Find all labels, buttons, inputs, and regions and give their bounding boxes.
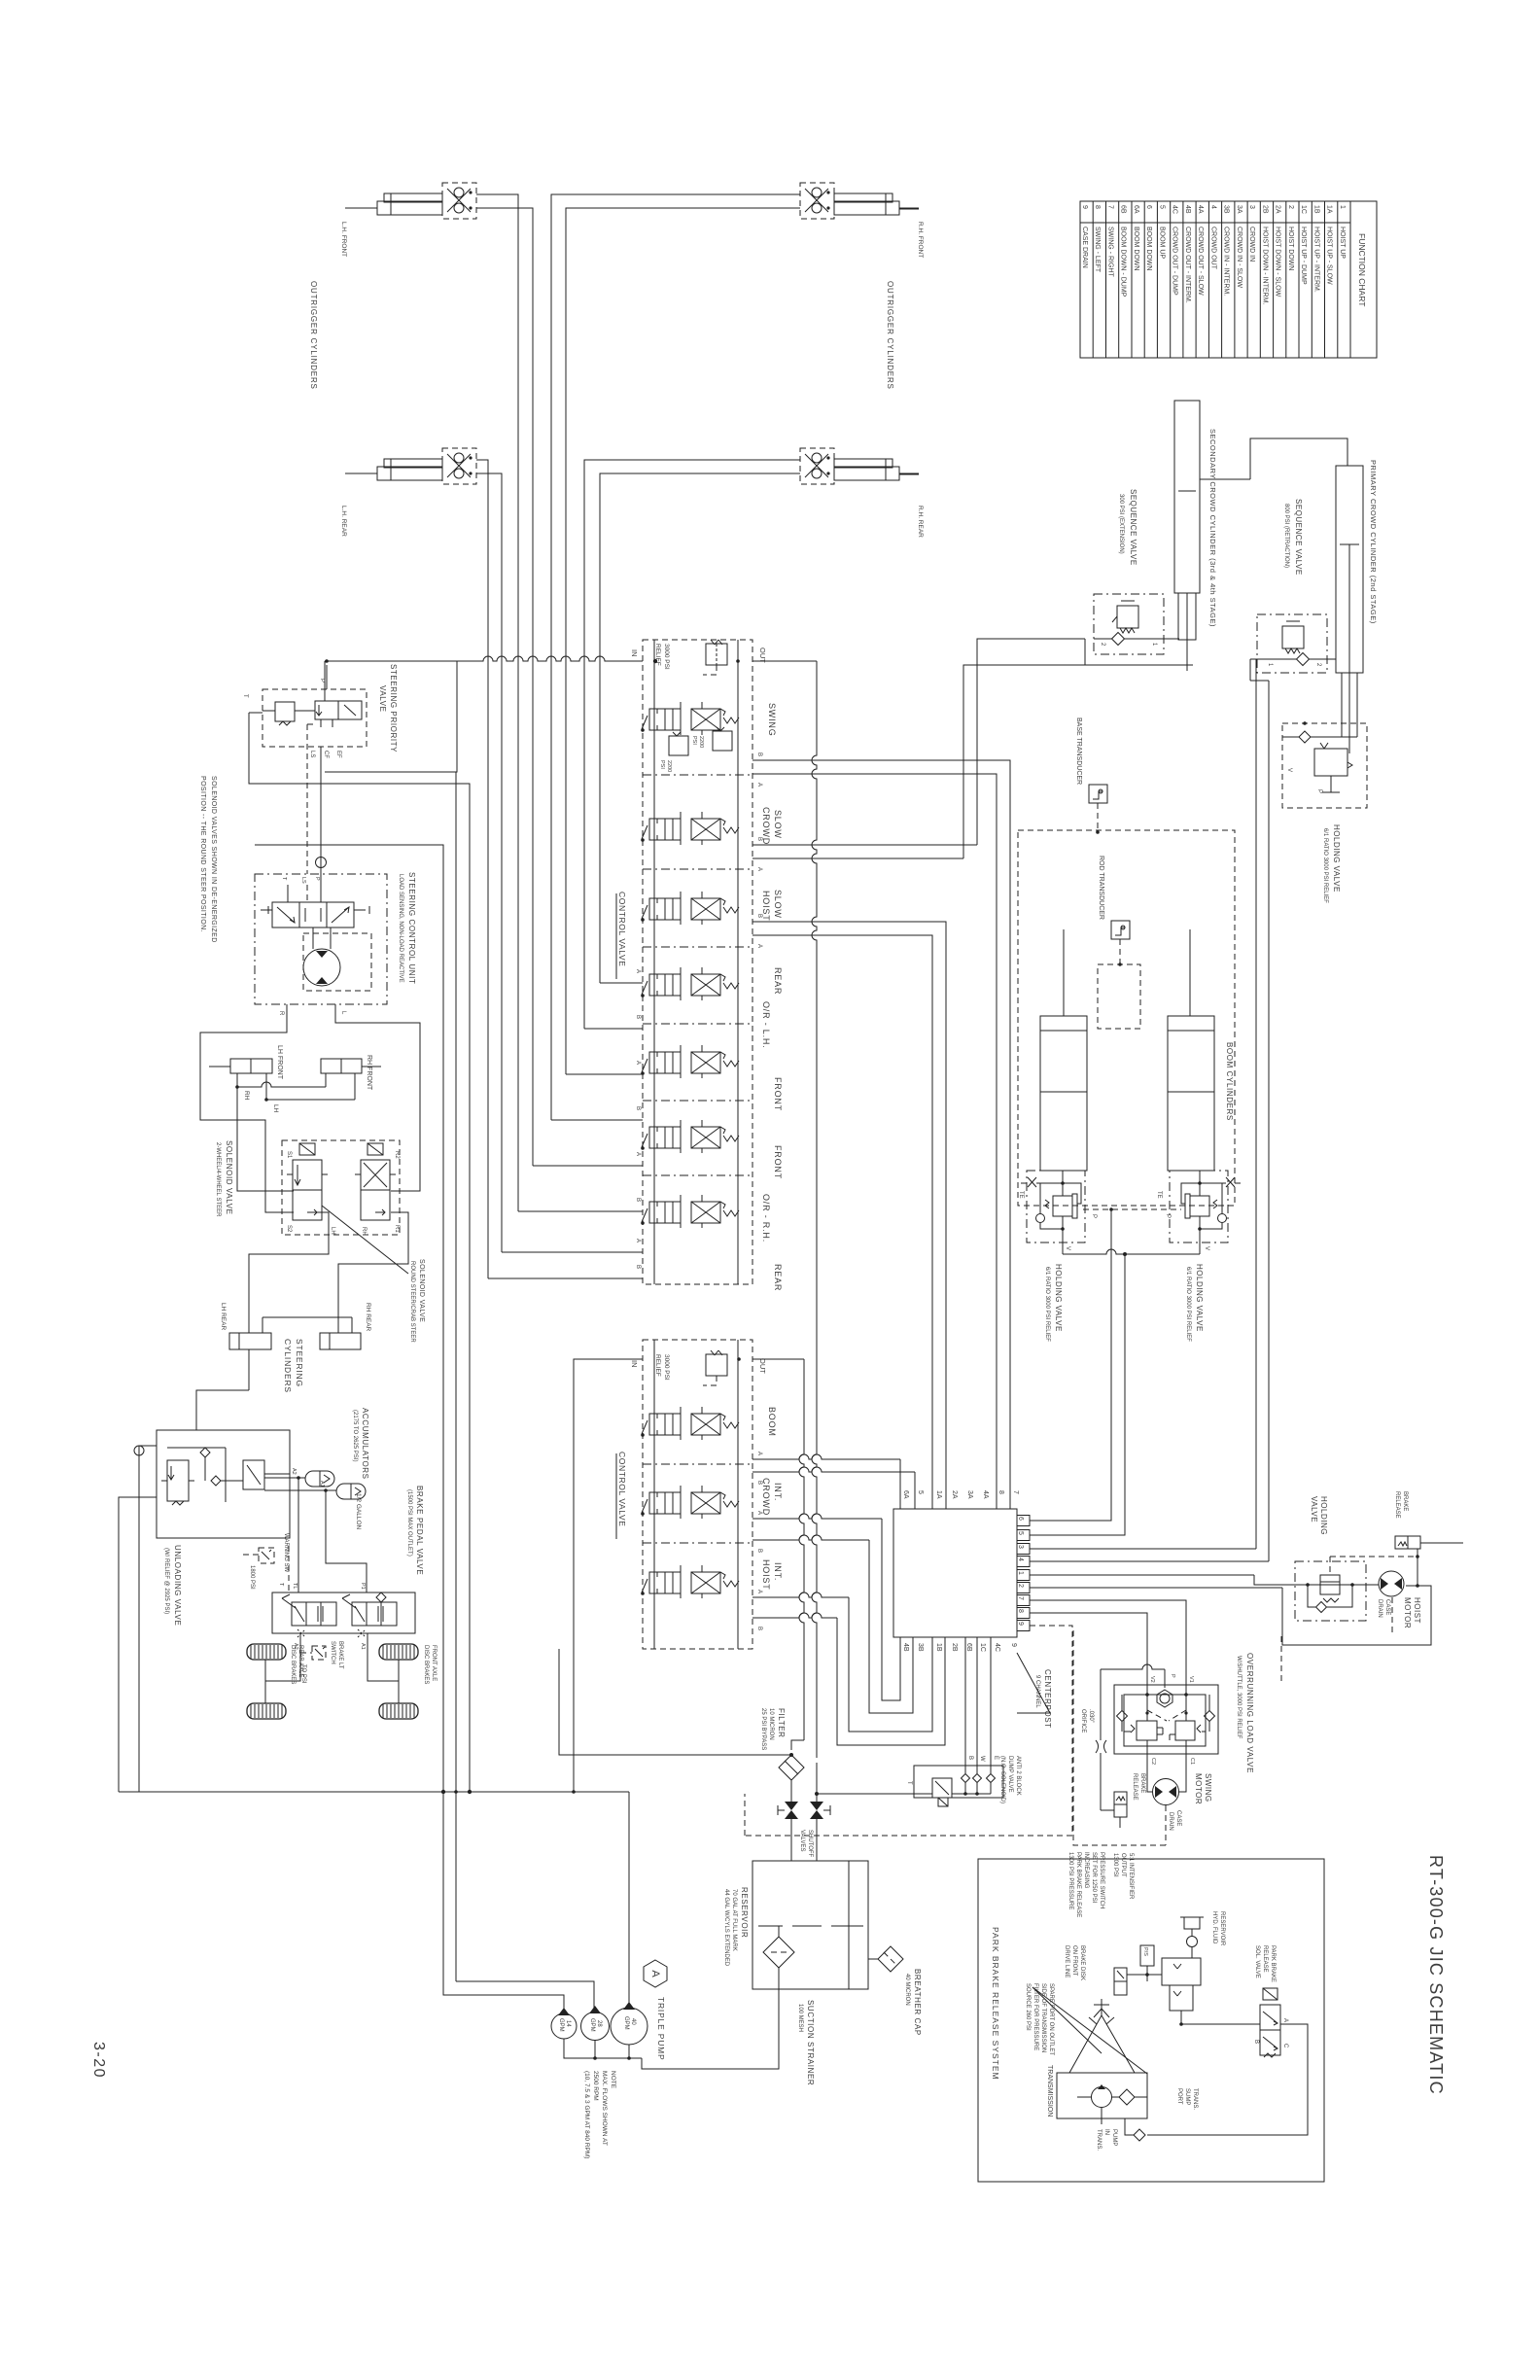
svg-text:MOTOR: MOTOR xyxy=(1194,1773,1203,1804)
svg-text:3-20: 3-20 xyxy=(90,2042,107,2079)
svg-text:B: B xyxy=(1253,2040,1259,2044)
svg-text:28: 28 xyxy=(596,2020,602,2027)
svg-text:ORIFICE: ORIFICE xyxy=(1080,1709,1086,1732)
svg-text:W: W xyxy=(979,1756,985,1762)
svg-text:1C: 1C xyxy=(979,1643,986,1652)
base transducer xyxy=(1089,785,1107,803)
svg-text:A: A xyxy=(756,944,762,948)
svg-text:R1: R1 xyxy=(394,1225,400,1233)
svg-text:SOLENOID VALVE: SOLENOID VALVE xyxy=(225,1140,233,1215)
svg-text:CF: CF xyxy=(323,751,329,758)
svg-text:SOLENOID VALVES SHOWN IN D: SOLENOID VALVES SHOWN IN DE-ENERGIZED xyxy=(210,776,217,943)
svg-text:2B: 2B xyxy=(951,1643,958,1652)
lower control valve box xyxy=(643,1340,752,1649)
wire staircase hoist A xyxy=(752,1592,849,1597)
svg-text:BRAKE: BRAKE xyxy=(1402,1491,1408,1511)
svg-text:A: A xyxy=(756,867,762,871)
wire centerpost 1 to hoist main line xyxy=(1254,1575,1379,1585)
svg-text:1: 1 xyxy=(1339,205,1346,209)
svg-text:DRAIN: DRAIN xyxy=(1377,1599,1382,1618)
SCU gerotor motor xyxy=(303,949,340,986)
svg-text:A: A xyxy=(635,1239,641,1242)
svg-text:FILTER FOR PRESSURE: FILTER FOR PRESSURE xyxy=(1032,1983,1038,2050)
swing assembly dashed enclosure xyxy=(1073,1630,1166,1845)
svg-text:A1: A1 xyxy=(360,1643,366,1650)
svg-text:4A: 4A xyxy=(982,1490,989,1499)
svg-text:HOLDING VALVE: HOLDING VALVE xyxy=(1054,1264,1063,1332)
swing port reliefs 2200 psi xyxy=(669,736,688,755)
svg-text:4C: 4C xyxy=(1172,205,1178,214)
svg-text:ANTI 2 BLOCK: ANTI 2 BLOCK xyxy=(1015,1756,1021,1796)
svg-text:P: P xyxy=(314,877,320,881)
tank return line xyxy=(559,1649,791,1755)
wire staircase hoist B xyxy=(752,1613,837,1618)
wire suction line xyxy=(642,1968,779,2069)
svg-text:HOIST UP: HOIST UP xyxy=(1339,227,1346,259)
pilot check valves L.H. REAR xyxy=(442,448,476,484)
svg-text:2A: 2A xyxy=(1275,205,1281,214)
svg-text:IN: IN xyxy=(630,1360,639,1368)
anti two block dump valve box xyxy=(914,1766,1003,1798)
svg-text:2-WHEEL/4-WHEEL STEER: 2-WHEEL/4-WHEEL STEER xyxy=(215,1142,221,1217)
brake pedal valve box xyxy=(272,1592,415,1633)
svg-text:GPM: GPM xyxy=(558,2018,564,2032)
svg-text:4A: 4A xyxy=(1197,205,1204,214)
lower control valve sections xyxy=(642,1420,647,1434)
svg-text:100 MESH: 100 MESH xyxy=(797,2004,803,2032)
svg-text:SOLENOID VALVE: SOLENOID VALVE xyxy=(418,1259,425,1322)
svg-text:SUMP: SUMP xyxy=(1184,2088,1190,2105)
svg-text:HOIST UP - DUMP: HOIST UP - DUMP xyxy=(1300,227,1307,285)
svg-text:RELEASE: RELEASE xyxy=(1262,1945,1268,1973)
svg-text:9: 9 xyxy=(1017,1622,1024,1626)
wire unloading A2 to accumulator and brake valve xyxy=(264,1477,305,1479)
svg-text:5: 5 xyxy=(1017,1531,1024,1535)
OLV spool right xyxy=(1175,1721,1195,1740)
centerpost right port stubs xyxy=(1017,1516,1030,1526)
svg-text:BOOM DOWN: BOOM DOWN xyxy=(1145,227,1152,271)
svg-text:E: E xyxy=(993,1756,998,1760)
transmission xyxy=(1057,2073,1147,2118)
svg-text:B: B xyxy=(756,1549,762,1553)
wire sol valve to sump xyxy=(1147,2024,1308,2135)
svg-text:10 MICRON: 10 MICRON xyxy=(768,1708,774,1740)
svg-text:6B: 6B xyxy=(1120,205,1127,214)
svg-text:(N.O. SOLENOID): (N.O. SOLENOID) xyxy=(999,1756,1005,1803)
brake pedal valve spools xyxy=(292,1602,336,1626)
svg-text:1A: 1A xyxy=(1326,205,1333,214)
steering control unit box xyxy=(255,874,387,1004)
svg-text:6A: 6A xyxy=(1133,205,1139,214)
svg-text:BRAKE LT: BRAKE LT xyxy=(337,1641,343,1669)
svg-text:A: A xyxy=(649,1970,661,1977)
wire centerpost 8 to OLV V2 xyxy=(1030,1613,1147,1721)
svg-text:PORT: PORT xyxy=(1176,2088,1182,2105)
svg-text:(1500 PSI MAX OUTLET): (1500 PSI MAX OUTLET) xyxy=(406,1489,412,1557)
tire rear axle bottom xyxy=(247,1703,286,1719)
boom holding valve right top loop xyxy=(1181,1183,1200,1204)
svg-text:A: A xyxy=(756,1511,762,1515)
SCU outer routing box xyxy=(255,845,443,1792)
svg-text:4B: 4B xyxy=(902,1643,909,1652)
wire P riser to centerpost 6 xyxy=(1030,1209,1111,1521)
svg-text:LS: LS xyxy=(309,751,315,757)
svg-text:LH: LH xyxy=(330,1227,335,1235)
svg-text:DRIVE LINE: DRIVE LINE xyxy=(1064,1945,1069,1977)
svg-text:OUTRIGGER CYLINDERS: OUTRIGGER CYLINDERS xyxy=(309,281,318,390)
triple pump 40 gpm xyxy=(611,2008,647,2045)
svg-text:UNLOADING VALVE: UNLOADING VALVE xyxy=(173,1545,182,1626)
lower CV section separators xyxy=(643,1463,752,1465)
svg-text:FRONT AXLE: FRONT AXLE xyxy=(431,1645,437,1681)
holding valve crowd xyxy=(1282,723,1367,808)
boom cylinder right xyxy=(1168,1016,1214,1171)
svg-text:L.H. FRONT: L.H. FRONT xyxy=(340,222,347,257)
svg-text:RT-300-G JIC SCHEMATIC: RT-300-G JIC SCHEMATIC xyxy=(1426,1855,1446,2095)
svg-text:O/R - L.H.: O/R - L.H. xyxy=(761,1001,771,1049)
svg-text:A: A xyxy=(756,1452,762,1455)
svg-text:FRONT: FRONT xyxy=(773,1145,783,1179)
hoist holding valve bypass check xyxy=(1308,1585,1315,1607)
svg-text:A: A xyxy=(635,1061,641,1065)
svg-text:S1: S1 xyxy=(286,1151,292,1159)
svg-text:1A: 1A xyxy=(935,1490,942,1499)
svg-text:RELEASE: RELEASE xyxy=(1394,1491,1400,1519)
wire staircase crowd B xyxy=(752,1535,869,1540)
svg-text:V2: V2 xyxy=(1149,1676,1155,1683)
svg-text:RH REAR: RH REAR xyxy=(365,1303,371,1332)
svg-text:CROWD OUT - SLOW: CROWD OUT - SLOW xyxy=(1197,227,1204,296)
svg-text:R: R xyxy=(278,1011,284,1016)
tire front axle top xyxy=(379,1644,418,1660)
wire L.H. REAR to bus xyxy=(476,460,488,1278)
svg-text:6/1 RATIO 3000 PSI RELIEF: 6/1 RATIO 3000 PSI RELIEF xyxy=(1044,1267,1050,1342)
svg-text:1B: 1B xyxy=(935,1643,942,1652)
check circle on line xyxy=(134,1446,144,1455)
svg-text:3A: 3A xyxy=(966,1490,973,1499)
svg-text:CASE: CASE xyxy=(1384,1599,1390,1615)
callout spare port xyxy=(1032,1987,1147,2074)
svg-text:BRAKE DISK: BRAKE DISK xyxy=(1079,1945,1085,1980)
svg-text:A2: A2 xyxy=(291,1468,297,1475)
svg-text:3: 3 xyxy=(1248,205,1255,209)
wire lower CV boom outputs to centerpost top xyxy=(752,1454,900,1459)
svg-text:B: B xyxy=(635,1106,641,1110)
reservoir hyd fluid symbol xyxy=(1184,1917,1200,1929)
outrigger cylinder R.H. FRONT xyxy=(834,201,899,215)
boom cylinders dashed enclosure xyxy=(1018,830,1235,1206)
svg-text:B: B xyxy=(635,1265,641,1269)
svg-text:P: P xyxy=(1091,1214,1097,1218)
svg-text:DISC BRAKES: DISC BRAKES xyxy=(290,1645,296,1684)
pressure intensifier xyxy=(1162,1958,1201,1985)
svg-text:9: 9 xyxy=(1081,205,1088,209)
svg-text:HOIST UP - INTERM.: HOIST UP - INTERM. xyxy=(1312,227,1319,293)
overrunning load valve box xyxy=(1114,1685,1218,1754)
svg-text:OUTPUT: OUTPUT xyxy=(1120,1853,1126,1877)
svg-text:800 PSI (RETRACTION): 800 PSI (RETRACTION) xyxy=(1283,504,1289,568)
svg-text:CONTROL VALVE: CONTROL VALVE xyxy=(617,892,627,967)
svg-text:ROD TRANSDUCER: ROD TRANSDUCER xyxy=(1098,856,1104,920)
svg-text:DRAIN: DRAIN xyxy=(1168,1812,1173,1831)
svg-text:P: P xyxy=(1316,789,1322,793)
accumulator 2 xyxy=(336,1484,366,1499)
svg-text:.030”: .030” xyxy=(1088,1709,1094,1723)
wire unloading valve to steering xyxy=(196,1390,249,1430)
svg-text:V: V xyxy=(1286,768,1292,772)
svg-text:R.H. FRONT: R.H. FRONT xyxy=(917,222,924,258)
boom holding valve right check xyxy=(1218,1214,1227,1223)
svg-text:2: 2 xyxy=(1017,1584,1024,1588)
svg-text:8: 8 xyxy=(1017,1609,1024,1613)
svg-text:P: P xyxy=(1165,1214,1171,1218)
svg-text:WARNING SW: WARNING SW xyxy=(283,1533,289,1572)
accumulator 1 xyxy=(305,1471,334,1487)
rear axle xyxy=(264,1660,266,1703)
svg-text:1800 PSI: 1800 PSI xyxy=(249,1565,255,1590)
triple pump 14 gpm xyxy=(551,2013,577,2039)
brake disk fork xyxy=(1101,1999,1102,2009)
svg-text:HOIST: HOIST xyxy=(761,1559,771,1591)
upper control valve box xyxy=(643,640,752,1284)
filter xyxy=(779,1755,804,1780)
svg-text:300 PSI (EXTENSION): 300 PSI (EXTENSION) xyxy=(1118,494,1124,554)
wire crowd feed lines xyxy=(977,639,1085,845)
wire staircase crowd A xyxy=(752,1514,882,1519)
svg-text:BOOM DOWN - DUMP: BOOM DOWN - DUMP xyxy=(1120,227,1127,297)
svg-text:4: 4 xyxy=(1017,1557,1024,1561)
svg-text:BASE TRANSDUCER: BASE TRANSDUCER xyxy=(1075,717,1082,785)
steering cylinder crossover A xyxy=(236,1073,238,1087)
OLV check left xyxy=(1117,1711,1128,1722)
anti two block T line xyxy=(817,1793,932,1795)
brake light switch xyxy=(312,1646,326,1660)
svg-text:PARK BRAKE: PARK BRAKE xyxy=(1270,1945,1276,1982)
svg-text:CROWD OUT - DUMP: CROWD OUT - DUMP xyxy=(1172,227,1178,296)
svg-text:B: B xyxy=(756,752,762,756)
wire port9 dashed network xyxy=(745,1626,1072,1836)
svg-text:A: A xyxy=(756,783,762,787)
svg-text:PSI: PSI xyxy=(659,760,665,769)
anti two block solenoid valve xyxy=(932,1778,952,1798)
wire unloading A1 to accumulator 2 and brake valve xyxy=(264,1489,336,1491)
svg-text:B: B xyxy=(756,1481,762,1485)
rod transducer dashed box xyxy=(1119,939,1121,964)
svg-text:TE: TE xyxy=(1018,1191,1024,1199)
svg-text:IN: IN xyxy=(1103,2129,1109,2135)
shutoff valve left xyxy=(785,1802,798,1810)
svg-text:TRANSMISSION: TRANSMISSION xyxy=(1046,2065,1053,2117)
svg-text:SEQUENCE VALVE: SEQUENCE VALVE xyxy=(1294,499,1303,576)
svg-text:A: A xyxy=(635,1152,641,1156)
svg-text:1B: 1B xyxy=(1312,205,1319,214)
svg-text:FILTER: FILTER xyxy=(777,1708,786,1738)
svg-text:C: C xyxy=(1282,2044,1288,2048)
svg-text:1300 PSI PRESSURE: 1300 PSI PRESSURE xyxy=(1067,1852,1073,1909)
svg-text:A: A xyxy=(1282,2018,1288,2022)
svg-text:S2: S2 xyxy=(286,1225,292,1233)
svg-text:SWITCH: SWITCH xyxy=(330,1641,335,1664)
svg-text:6: 6 xyxy=(1145,205,1152,209)
OLV check right xyxy=(1205,1711,1215,1722)
svg-text:4C: 4C xyxy=(994,1643,1000,1652)
steering priority valve outer routing xyxy=(324,661,326,701)
wire boom holding V lines xyxy=(1063,1249,1200,1254)
svg-text:5:1 INTENSIFIER: 5:1 INTENSIFIER xyxy=(1128,1853,1134,1900)
svg-text:40 MICRON: 40 MICRON xyxy=(904,1974,910,2006)
svg-text:TRIPLE PUMP: TRIPLE PUMP xyxy=(656,1997,666,2060)
svg-text:6/1 RATIO 3000 PSI RELIEF: 6/1 RATIO 3000 PSI RELIEF xyxy=(1185,1267,1191,1342)
boom holding valve left TE branch xyxy=(1036,1182,1063,1184)
svg-text:W/SHUTTLE, 3000 PSI RELIEF: W/SHUTTLE, 3000 PSI RELIEF xyxy=(1236,1656,1242,1739)
swing case drain dash xyxy=(1165,1805,1167,1845)
svg-text:(W/ RELIEF @ 2925 PSI): (W/ RELIEF @ 2925 PSI) xyxy=(163,1548,169,1614)
svg-text:TE: TE xyxy=(1156,1191,1162,1199)
svg-text:IN: IN xyxy=(630,649,639,657)
svg-text:V: V xyxy=(1204,1246,1209,1250)
svg-text:7: 7 xyxy=(1017,1596,1024,1600)
hoist holding valve box xyxy=(1295,1561,1366,1621)
svg-text:OUT: OUT xyxy=(758,1358,767,1374)
priority pilot relief xyxy=(275,702,295,721)
svg-text:(10, 7.5 & 3 GPM AT 840: (10, 7.5 & 3 GPM AT 840 RPM) xyxy=(583,2071,590,2158)
svg-text:LOAD SENSING, NON-LOAD REAC: LOAD SENSING, NON-LOAD REACTIVE xyxy=(398,874,403,983)
svg-text:8: 8 xyxy=(997,1490,1004,1494)
svg-text:HOLDING VALVE: HOLDING VALVE xyxy=(1332,824,1341,892)
svg-text:CROWD OUT - INTERM.: CROWD OUT - INTERM. xyxy=(1184,227,1191,303)
svg-text:HOIST: HOIST xyxy=(1413,1597,1421,1624)
svg-text:3000 PSI: 3000 PSI xyxy=(663,644,670,670)
wire OUT upper riser xyxy=(752,660,817,662)
reservoir xyxy=(752,1861,868,1989)
svg-text:HOLDING: HOLDING xyxy=(1319,1496,1328,1535)
svg-text:2200: 2200 xyxy=(666,760,672,772)
svg-text:FUNCTION CHART: FUNCTION CHART xyxy=(1357,233,1367,306)
svg-text:6: 6 xyxy=(1017,1517,1024,1521)
suction strainer xyxy=(763,1937,794,1968)
svg-text:B: B xyxy=(756,837,762,841)
wire boom cylinder tops xyxy=(1063,935,1065,937)
svg-text:DUMP VALVE: DUMP VALVE xyxy=(1007,1756,1013,1793)
svg-text:4B: 4B xyxy=(1184,205,1191,214)
wire V line to centerpost 5 xyxy=(1030,1254,1125,1535)
svg-text:BRAKE: BRAKE xyxy=(1139,1773,1145,1793)
SCU spool xyxy=(272,902,354,927)
svg-text:STEERING: STEERING xyxy=(295,1339,304,1387)
svg-text:SWING - RIGHT: SWING - RIGHT xyxy=(1107,227,1114,277)
svg-text:GPM: GPM xyxy=(589,2018,595,2032)
svg-text:ACCUMULATORS: ACCUMULATORS xyxy=(361,1408,369,1480)
boom holding valve left check xyxy=(1036,1214,1045,1223)
OLV shuttle xyxy=(1160,1694,1170,1703)
hoist motor xyxy=(1379,1571,1404,1596)
park brake release sol valve xyxy=(1260,2005,1280,2030)
unloading valve internals xyxy=(167,1460,189,1501)
svg-text:V1: V1 xyxy=(1188,1676,1194,1683)
svg-text:BOOM DOWN: BOOM DOWN xyxy=(1133,227,1139,271)
svg-text:VALVE: VALVE xyxy=(378,685,387,713)
svg-text:CROWD OUT: CROWD OUT xyxy=(1209,227,1216,270)
wire SCU R to solenoid valve xyxy=(200,1004,294,1212)
SCU ports T LS P xyxy=(287,885,289,902)
pump suction manifold xyxy=(564,2039,642,2058)
outrigger cylinder L.H. FRONT xyxy=(377,201,442,215)
svg-text:LS: LS xyxy=(300,877,306,884)
svg-text:MAX. FLOWS SHOWN AT: MAX. FLOWS SHOWN AT xyxy=(601,2071,608,2146)
svg-text:SWING: SWING xyxy=(1204,1773,1212,1802)
svg-text:STEERING CONTROL UNIT: STEERING CONTROL UNIT xyxy=(407,872,416,984)
svg-text:T: T xyxy=(242,694,248,698)
node hops on front outrigger lines xyxy=(345,207,377,209)
svg-text:RH: RH xyxy=(361,1227,367,1236)
wire IN lower from pump xyxy=(574,1359,643,1792)
park brake release system box xyxy=(978,1859,1324,2182)
svg-text:3000 PSI: 3000 PSI xyxy=(663,1354,670,1381)
dashed P pilot line between holding valves xyxy=(1083,1208,1181,1210)
svg-text:STEERING PRIORITY: STEERING PRIORITY xyxy=(389,664,398,752)
hoist case drain dashes xyxy=(1391,1597,1393,1636)
svg-text:PUMP: PUMP xyxy=(1111,2129,1117,2146)
wire solenoid valve to rear cylinders xyxy=(249,1212,329,1333)
svg-text:R.H. REAR: R.H. REAR xyxy=(917,506,924,538)
svg-text:14: 14 xyxy=(565,2020,571,2027)
svg-text:3: 3 xyxy=(1017,1545,1024,1549)
wire R.H. REAR to bus xyxy=(584,460,800,1029)
svg-text:B: B xyxy=(635,1015,641,1019)
svg-text:VALVE: VALVE xyxy=(1310,1496,1318,1522)
svg-text:LH REAR: LH REAR xyxy=(220,1303,227,1330)
svg-text:4: 4 xyxy=(1209,205,1216,209)
svg-text:2: 2 xyxy=(1287,205,1294,209)
anti two block check diamonds xyxy=(962,1774,970,1783)
svg-text:RESERVOIR: RESERVOIR xyxy=(740,1887,749,1938)
steering cylinder crossover B xyxy=(265,1073,267,1100)
svg-text:TL: TL xyxy=(292,1583,297,1589)
wire LS dashed down xyxy=(306,724,308,874)
svg-text:SIDE OF TRANSMISSION: SIDE OF TRANSMISSION xyxy=(1040,1983,1046,2052)
svg-text:A1: A1 xyxy=(319,1481,325,1487)
wire upper CV left ports from outrigger bus xyxy=(488,1277,643,1279)
relief valve 3000 psi lower xyxy=(706,1354,727,1376)
wire SCU L to solenoid valve xyxy=(335,1004,420,1191)
svg-text:SUCTION STRAINER: SUCTION STRAINER xyxy=(806,2000,815,2085)
svg-text:1: 1 xyxy=(1017,1571,1024,1575)
wire centerpost 2 hoist return loop xyxy=(1282,1586,1431,1645)
pilot check valves R.H. FRONT xyxy=(800,183,834,219)
svg-text:P1: P1 xyxy=(360,1583,366,1590)
svg-text:CROWD IN - SLOW: CROWD IN - SLOW xyxy=(1236,227,1242,288)
svg-text:CASE: CASE xyxy=(1175,1810,1181,1826)
tire front axle bottom xyxy=(379,1703,418,1719)
intensifier check to reservoir xyxy=(1187,1937,1198,1947)
svg-text:1300 PSI: 1300 PSI xyxy=(1112,1853,1118,1877)
front axle xyxy=(398,1660,400,1703)
steering priority valve xyxy=(262,689,367,747)
svg-text:CENTERPOST: CENTERPOST xyxy=(1043,1669,1052,1729)
pressure switch box xyxy=(1140,1945,1154,1966)
svg-text:CYLINDERS: CYLINDERS xyxy=(283,1339,293,1393)
svg-text:2B: 2B xyxy=(1261,205,1268,214)
svg-text:T: T xyxy=(906,1781,912,1785)
wire base transducer dashed xyxy=(1097,803,1099,832)
svg-text:B: B xyxy=(635,1198,641,1202)
svg-text:VALVES: VALVES xyxy=(799,1830,805,1851)
wire brake release to motor xyxy=(1417,1549,1418,1586)
svg-text:V: V xyxy=(1065,1246,1070,1250)
svg-text:RH FRONT: RH FRONT xyxy=(366,1055,372,1091)
svg-text:MOTOR: MOTOR xyxy=(1403,1597,1412,1628)
upper CV section separators xyxy=(643,774,752,776)
